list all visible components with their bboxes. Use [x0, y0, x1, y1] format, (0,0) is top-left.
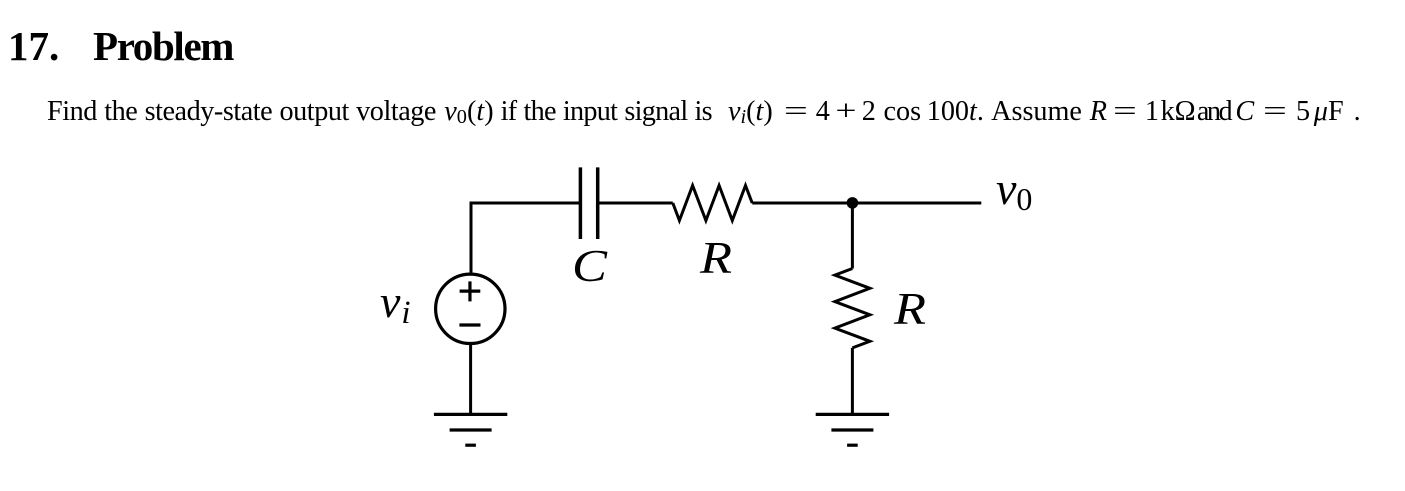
- resistor R (shunt, vertical zigzag): [835, 269, 870, 348]
- svg-text:C: C: [572, 240, 608, 291]
- wire: shunt resistor to ground: [851, 348, 854, 415]
- svg-text:v0: v0: [996, 163, 1032, 217]
- capacitor C plates: [580, 167, 597, 239]
- node: output junction dot: [847, 197, 859, 209]
- ground (under source): [434, 414, 507, 445]
- svg-text:R: R: [699, 232, 732, 283]
- svg-text:R: R: [893, 283, 926, 334]
- resistor R (series, zigzag): [673, 186, 752, 221]
- svg-text:vi: vi: [380, 276, 411, 331]
- voltage source vi (circle): [436, 274, 505, 343]
- section heading number: [8, 22, 59, 70]
- wire: node down to shunt resistor: [851, 203, 854, 269]
- wire: source bottom to ground: [469, 344, 472, 414]
- section heading title: [93, 22, 233, 70]
- wire: source top to capacitor (with corner): [471, 203, 580, 274]
- problem statement text: [47, 96, 1361, 128]
- wire: capacitor to series resistor: [598, 202, 673, 205]
- ground (under shunt resistor): [816, 414, 889, 445]
- polarity minus sign: [459, 323, 480, 326]
- wire: series resistor to output terminal (through node): [752, 202, 981, 205]
- polarity plus sign: [460, 281, 481, 301]
